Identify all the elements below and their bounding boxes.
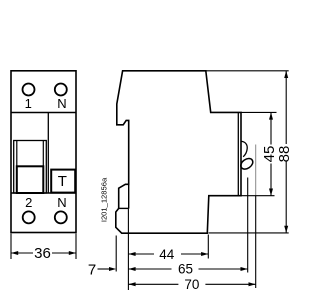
clip bottom edge [119, 207, 129, 209]
svg-text:88: 88 [276, 146, 293, 163]
dimension 36 arrows [11, 251, 18, 255]
terminal circle 2 [23, 211, 35, 223]
svg-text:I201_12856a: I201_12856a [100, 177, 109, 222]
extension line side step [207, 235, 209, 259]
svg-text:T: T [58, 173, 67, 190]
extension line bottom for 45 [241, 195, 275, 197]
dimension 44 line [128, 253, 154, 255]
terminal circle N top [55, 84, 67, 96]
toggle handle [17, 166, 44, 193]
front view body outline [11, 71, 76, 233]
extension line top for 45 [241, 111, 277, 113]
svg-text:N: N [57, 96, 66, 111]
extension line side front face [127, 209, 129, 290]
test button T [51, 170, 75, 193]
dimension 88 line [285, 71, 287, 144]
dimension 65 line [128, 268, 171, 270]
dimension 70 line [128, 283, 178, 285]
svg-text:36: 36 [34, 245, 51, 262]
dimension 36 line [11, 252, 33, 254]
svg-text:N: N [57, 195, 66, 210]
extension line bottom for 88 [209, 232, 289, 234]
front view bottom terminal box top edge [11, 192, 76, 194]
svg-text:70: 70 [184, 277, 199, 292]
toggle rail right [42, 141, 44, 167]
extension line front left [10, 234, 12, 260]
extension line rail front [247, 178, 249, 273]
svg-text:7: 7 [88, 261, 96, 278]
terminal circle N bottom [55, 211, 67, 223]
side view main outline [116, 71, 241, 233]
front view middle divider [47, 113, 49, 194]
rail clip phantom line [255, 145, 257, 197]
front view top terminal box bottom edge [11, 112, 76, 114]
extension line side leftmost [115, 236, 117, 272]
svg-text:1: 1 [25, 96, 32, 111]
toggle rail left [16, 141, 18, 167]
dimension 45 line [270, 112, 272, 144]
rail fin inner line [237, 112, 239, 195]
rail release cam arc [241, 141, 248, 156]
toggle switch recess [14, 141, 47, 194]
side view front face line behind clip [128, 184, 130, 208]
terminal circle 1 [23, 84, 35, 96]
extension line rail back [255, 196, 257, 288]
dimension 7 leader [98, 268, 111, 270]
svg-text:44: 44 [159, 247, 175, 262]
extension line front right [75, 234, 77, 260]
svg-text:65: 65 [178, 261, 193, 276]
rail release knob [239, 156, 255, 171]
svg-text:2: 2 [25, 195, 32, 210]
extension line top for 88 [206, 70, 289, 72]
